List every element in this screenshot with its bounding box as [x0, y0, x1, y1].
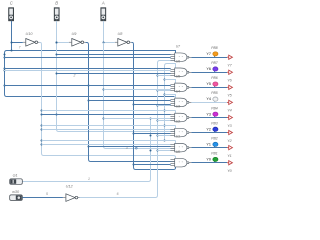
node A row3 branch — [103, 89, 105, 91]
wire row3 pin4 feed — [157, 90, 171, 92]
wire row2 pin4 feed — [157, 75, 171, 77]
wire row5 top jog — [175, 110, 177, 113]
node C-bar row7 branch — [41, 140, 43, 142]
wire LED PB4 stub — [214, 114, 216, 117]
wire row7 pin4 feed — [157, 150, 171, 152]
svg-text:1: 1 — [88, 177, 90, 181]
svg-text:w30: w30 — [12, 190, 20, 194]
node C-bar row6 branch — [41, 125, 43, 127]
wire row5 pin1 line — [42, 114, 171, 116]
wire B to U9 input — [57, 42, 69, 44]
wire row2 pin1 line — [4, 68, 171, 70]
svg-text:Y4: Y4 — [206, 97, 211, 101]
node C-bar row7b branch — [41, 144, 43, 146]
wire row5 pin3 line — [103, 118, 170, 120]
svg-text:2: 2 — [73, 74, 76, 78]
wire A-bar bus with corners — [132, 43, 176, 170]
LED PB4 — [206, 106, 218, 116]
svg-text:PB4: PB4 — [211, 106, 218, 110]
node riser-T row6 branch — [164, 125, 166, 127]
LED PB3 — [206, 121, 218, 131]
node riser-G1 row6 branch — [150, 135, 152, 137]
node C bus branch a — [4, 54, 6, 56]
node B row5 branch — [56, 114, 58, 116]
node B row2 branch — [56, 73, 58, 75]
wire row7 pin1 line — [42, 144, 171, 146]
svg-text:Y1: Y1 — [206, 142, 211, 146]
wire LED PB6 stub — [214, 84, 216, 87]
wire w30 to U12 input — [22, 197, 63, 199]
inverter U12 — [63, 185, 80, 202]
svg-text:PB5: PB5 — [211, 91, 218, 95]
LED PB7 — [206, 61, 218, 71]
wire row3 top jog — [175, 79, 177, 83]
node A tap U8 — [103, 42, 105, 44]
svg-text:Y7: Y7 — [206, 52, 211, 56]
node B-bar row7 branch — [88, 146, 90, 148]
node riser-E row5 branch — [157, 120, 159, 122]
NAND gate U1 — [170, 135, 191, 152]
node riser-T row3 branch — [164, 79, 166, 81]
node riser-E row2 branch — [157, 75, 159, 77]
wire Y2 output horizontal — [191, 132, 227, 134]
input switch C — [9, 1, 14, 21]
node riser-G1 top tee — [150, 118, 152, 120]
wire row7 pin2 line — [88, 146, 170, 148]
node B tap U9 — [56, 42, 58, 44]
wire riser G1 vertical with corner — [23, 119, 151, 182]
node A row5 branch — [103, 118, 105, 120]
wire row6 top jog — [175, 125, 177, 128]
wire row3 pin3 line — [103, 89, 170, 91]
wire B bus with corner — [57, 43, 175, 132]
wire Y4 output horizontal — [191, 102, 227, 104]
wire row6 top feed — [42, 125, 176, 127]
wire row1 top jog — [175, 50, 177, 53]
inverter U9 — [69, 32, 86, 46]
wire row5 pin4 feed — [157, 120, 171, 122]
wire row6 pin3 line — [133, 133, 170, 135]
svg-text:U10: U10 — [26, 32, 34, 36]
node C-bar row5b branch — [41, 114, 43, 116]
node C-bar row6b branch — [41, 129, 43, 131]
svg-text:PB2: PB2 — [211, 136, 218, 140]
node C bus branch d — [4, 70, 6, 72]
svg-text:Y3: Y3 — [206, 112, 211, 116]
wire LED PB2 stub — [214, 145, 216, 148]
wire row1 pin1 line — [57, 54, 171, 56]
LED PB8 — [206, 46, 218, 56]
input switch w30 — [10, 190, 23, 201]
wire C switch stem — [11, 21, 13, 50]
wire Y5 output horizontal — [191, 87, 227, 89]
wire Y0 output horizontal — [191, 162, 227, 164]
output port Y6 — [227, 70, 233, 82]
LED PB1 — [206, 151, 218, 161]
output port Y3 — [227, 115, 233, 127]
svg-text:U4: U4 — [176, 90, 180, 94]
output port Y7 — [227, 55, 233, 67]
node C stem joins row1 line — [11, 50, 13, 52]
input switch A — [101, 1, 106, 21]
wire LED PB8 stub — [214, 54, 216, 57]
node riser-E row4 branch — [157, 105, 159, 107]
wire row1 pin3 line — [4, 57, 171, 59]
canvas background — [0, 0, 240, 210]
output port Y5 — [227, 85, 233, 97]
output port Y2 — [227, 130, 232, 142]
svg-text:Y2: Y2 — [227, 139, 232, 143]
node C bus branch c — [4, 68, 6, 70]
svg-text:PB3: PB3 — [211, 121, 218, 125]
wire riser E with corners — [80, 61, 175, 198]
svg-text:5: 5 — [46, 192, 48, 196]
wire A bus with corner — [104, 43, 175, 149]
output port Y4 — [227, 100, 232, 112]
input switch B — [54, 1, 59, 21]
wire row6 pin4 feed — [157, 135, 171, 137]
svg-text:7: 7 — [19, 46, 21, 50]
input switch G1 — [10, 174, 23, 185]
output port Y0 — [227, 161, 233, 173]
node riser-T row5 branch — [164, 110, 166, 112]
svg-text:U3: U3 — [176, 105, 180, 109]
wire row2 pin2 line — [4, 70, 171, 72]
wire row4 top jog — [175, 94, 177, 98]
node B-bar row3 branch — [88, 85, 90, 87]
NAND gate U0 — [170, 150, 191, 167]
wire row8 pin3 line — [133, 164, 170, 166]
inverter U8 — [115, 32, 132, 46]
node B tap U9 dn — [56, 42, 58, 44]
node A-bar row6 branch — [133, 133, 135, 135]
node riser-E row3 branch — [157, 90, 159, 92]
node C-bar row5 branch — [41, 110, 43, 112]
node B-bar row4 branch — [88, 100, 90, 102]
wire row2 pin3 line — [57, 73, 171, 75]
svg-text:G1: G1 — [13, 174, 18, 178]
node riser-E row7 branch — [157, 150, 159, 152]
svg-text:U0: U0 — [176, 150, 180, 154]
node A-bar row4 branch — [133, 104, 135, 106]
svg-text:U12: U12 — [66, 185, 74, 189]
wire row3 top feed — [164, 79, 175, 81]
wire LED PB7 stub — [214, 69, 216, 72]
wire Y7 output horizontal — [191, 57, 227, 59]
wire C to U10 input — [11, 42, 23, 44]
wire B switch stem — [56, 21, 58, 42]
node B row1 branch — [56, 54, 58, 56]
wire row2 top jog — [175, 63, 177, 68]
wire Y3 output horizontal — [191, 117, 227, 119]
NAND gate U7 — [170, 44, 191, 61]
wire LED PB3 stub — [214, 129, 216, 132]
svg-text:B: B — [55, 1, 58, 6]
wire row5 top feed — [42, 110, 176, 112]
svg-text:Y4: Y4 — [227, 109, 232, 113]
NAND gate U6 — [170, 59, 191, 76]
node C bus branch b — [4, 57, 6, 59]
NAND gate U5 — [170, 74, 191, 91]
wire row6 pin1 line — [42, 129, 171, 131]
node C bus branch e — [4, 85, 6, 87]
wire LED PB5 stub — [214, 99, 216, 102]
wire Y6 output horizontal — [191, 72, 227, 74]
wire riser T with corners — [165, 64, 176, 141]
svg-text:PB7: PB7 — [211, 61, 218, 65]
LED PB5 — [206, 91, 218, 101]
wire row4 pin2 line — [88, 100, 170, 102]
NAND gate U2 — [170, 120, 191, 137]
wire row4 pin4 feed — [157, 105, 171, 107]
wire B-bar bus with corners — [86, 43, 175, 162]
wire A to U8 input — [103, 42, 115, 44]
svg-text:Y0: Y0 — [206, 157, 211, 161]
svg-text:U5: U5 — [176, 74, 180, 78]
wire A switch stem — [103, 21, 105, 42]
node riser-E row6 branch — [157, 135, 159, 137]
wire C left bus with corners — [5, 51, 176, 97]
svg-text:PB8: PB8 — [211, 46, 218, 50]
node riser-G1 row7 branch — [150, 150, 152, 152]
node riser-T row4 branch — [164, 94, 166, 96]
wire row4 top feed — [164, 94, 175, 96]
output port Y1 — [227, 146, 232, 158]
LED PB6 — [206, 76, 218, 86]
svg-text:PB6: PB6 — [211, 76, 218, 80]
wire C-bar bus with corners — [40, 43, 176, 159]
wire Y1 output horizontal — [191, 147, 227, 149]
svg-text:U7: U7 — [176, 44, 180, 48]
inverter U10 — [23, 32, 40, 46]
svg-text:U2: U2 — [176, 120, 180, 124]
node net-3 open end — [135, 147, 137, 149]
svg-text:U1: U1 — [176, 135, 180, 139]
wire row7 top feed — [42, 140, 176, 142]
wire row3 pin1 line — [4, 85, 171, 87]
node riser-T row7 branch — [164, 140, 166, 142]
wire LED PB1 stub — [214, 160, 216, 163]
svg-text:Y6: Y6 — [206, 67, 211, 71]
svg-text:6: 6 — [117, 192, 119, 196]
svg-text:Y2: Y2 — [206, 127, 211, 131]
svg-text:U6: U6 — [176, 59, 180, 63]
wire row4 pin3 line — [133, 104, 170, 106]
NAND gate U3 — [170, 105, 191, 122]
svg-text:PB1: PB1 — [211, 151, 218, 155]
wire row7 top jog — [175, 140, 177, 143]
node C tap U10 — [11, 42, 13, 44]
LED PB2 — [206, 136, 218, 146]
NAND gate U4 — [170, 90, 191, 107]
svg-text:A: A — [101, 1, 105, 6]
svg-text:Y5: Y5 — [206, 82, 211, 86]
svg-text:Y1: Y1 — [227, 154, 232, 158]
node A-bar row8 branch — [133, 164, 135, 166]
